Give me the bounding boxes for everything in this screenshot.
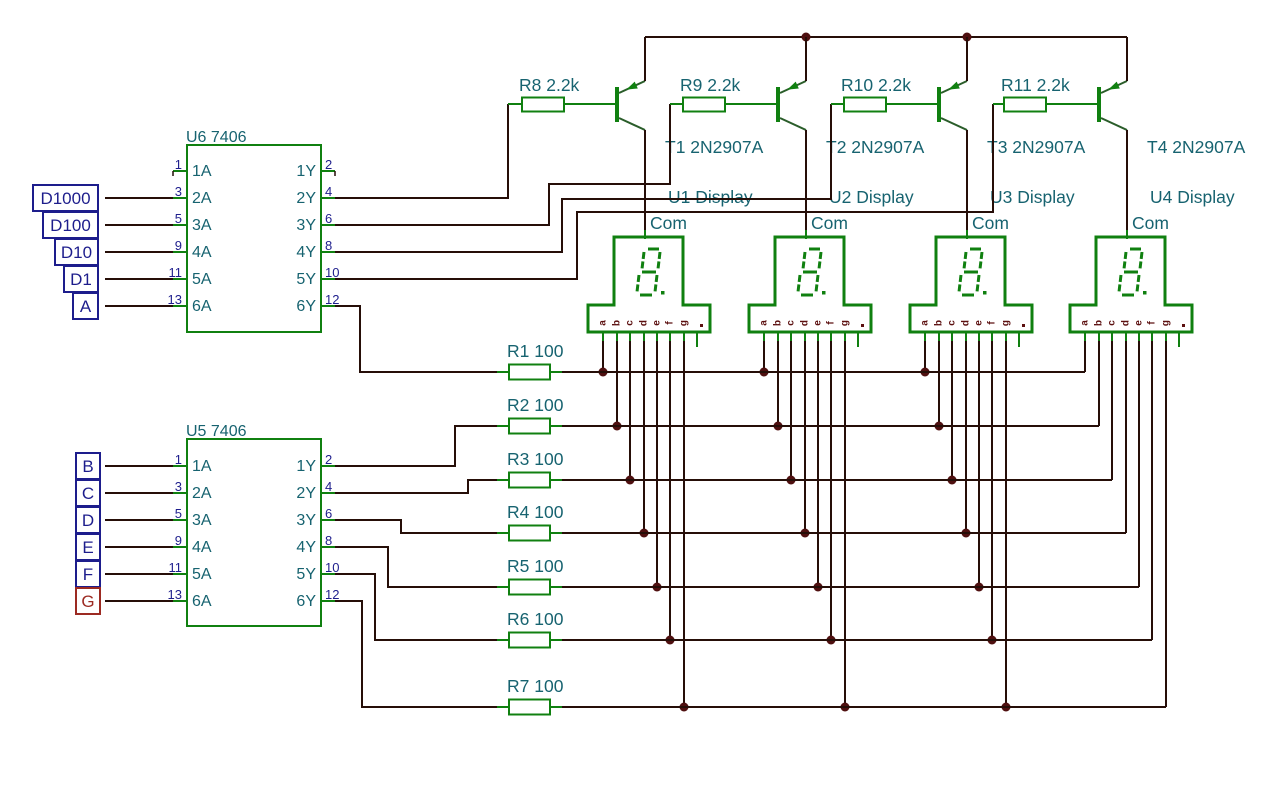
display U4 digit 8. (1119, 249, 1147, 295)
display U4 segment drop wires (1085, 341, 1166, 707)
svg-text:D10: D10 (61, 243, 92, 262)
terminal label E (76, 534, 100, 560)
resistor R7 100 (497, 700, 562, 715)
wire U6 5Y to R11 (335, 104, 993, 279)
resistor R6 100 (497, 633, 562, 648)
svg-text:3Y: 3Y (296, 512, 316, 529)
wire T2 collector to display Com (805, 130, 807, 232)
svg-text:12: 12 (325, 587, 339, 602)
svg-text:12: 12 (325, 292, 339, 307)
wire segment row R7 (562, 706, 1166, 708)
resistor R8 2.2k (522, 98, 615, 112)
svg-text:c: c (947, 320, 958, 326)
svg-text:13: 13 (168, 587, 182, 602)
wire segment row R3 (562, 479, 1112, 481)
svg-text:1A: 1A (192, 458, 212, 475)
transistor T1 2N2907A (617, 81, 645, 130)
wire T1 emitter to rail (644, 37, 646, 81)
svg-text:T1 2N2907A: T1 2N2907A (665, 137, 764, 157)
svg-text:5: 5 (175, 211, 182, 226)
svg-text:b: b (1094, 320, 1105, 326)
svg-text:R6 100: R6 100 (507, 609, 564, 629)
svg-text:Com: Com (972, 213, 1009, 233)
svg-text:e: e (974, 320, 985, 326)
svg-text:3A: 3A (192, 512, 212, 529)
display U1 pin letters (598, 320, 703, 327)
terminal label D1000 (33, 185, 98, 211)
svg-text:D: D (82, 511, 94, 530)
svg-text:2: 2 (325, 157, 332, 172)
transistor T3 2N2907A (939, 81, 967, 130)
svg-text:g: g (1001, 320, 1012, 326)
display U1 outline (588, 237, 710, 332)
wire feed to R3 (335, 480, 497, 493)
terminal label D (76, 507, 100, 533)
display U2 junction dots (760, 368, 850, 712)
svg-text:b: b (773, 320, 784, 326)
svg-text:2A: 2A (192, 190, 212, 207)
svg-text:d: d (1121, 320, 1132, 326)
svg-text:3A: 3A (192, 217, 212, 234)
display U4 pin letters (1080, 320, 1185, 327)
wire G to U5 6A (105, 600, 173, 602)
wire B to U5 1A (105, 465, 173, 467)
wire feed to R6 (335, 574, 497, 640)
svg-text:4Y: 4Y (296, 244, 316, 261)
wire T4 collector to display Com (1126, 130, 1128, 232)
svg-text:6A: 6A (192, 593, 212, 610)
svg-text:6Y: 6Y (296, 593, 316, 610)
svg-text:R3 100: R3 100 (507, 449, 564, 469)
svg-text:F: F (83, 565, 93, 584)
svg-text:6Y: 6Y (296, 298, 316, 315)
svg-text:T4 2N2907A: T4 2N2907A (1147, 137, 1246, 157)
IC U6 pin stubs (173, 171, 335, 306)
svg-text:R1 100: R1 100 (507, 341, 564, 361)
svg-text:B: B (82, 457, 93, 476)
display U3 pin letters (920, 320, 1025, 327)
IC U5 pin numbers (168, 452, 340, 602)
svg-text:R5 100: R5 100 (507, 556, 564, 576)
svg-text:e: e (1134, 320, 1145, 326)
resistor R4 100 (497, 526, 562, 541)
terminal label B (76, 453, 100, 479)
svg-text:4Y: 4Y (296, 539, 316, 556)
svg-text:U3 Display: U3 Display (990, 187, 1075, 207)
svg-text:Com: Com (1132, 213, 1169, 233)
svg-text:T3 2N2907A: T3 2N2907A (987, 137, 1086, 157)
svg-text:10: 10 (325, 265, 339, 280)
display U3 pin stubs (925, 332, 1019, 347)
wire feed to R5 (335, 547, 497, 587)
svg-text:R2 100: R2 100 (507, 395, 564, 415)
wire T1 collector to display Com (644, 130, 646, 232)
transistor T4 2N2907A (1099, 81, 1127, 130)
resistor R11 2.2k (1004, 98, 1097, 112)
display U3 common stub (966, 230, 968, 239)
svg-text:5A: 5A (192, 566, 212, 583)
svg-text:6A: 6A (192, 298, 212, 315)
wire D to U5 3A (105, 519, 173, 521)
IC U5 pin stubs (173, 466, 335, 601)
wire segment row R1 (562, 371, 1085, 373)
svg-text:D100: D100 (50, 216, 91, 235)
svg-text:4: 4 (325, 479, 332, 494)
svg-text:c: c (786, 320, 797, 326)
svg-text:C: C (82, 484, 94, 503)
svg-text:R9 2.2k: R9 2.2k (680, 75, 741, 95)
display U2 segment drop wires (764, 341, 845, 707)
svg-text:G: G (81, 592, 94, 611)
resistor R9 2.2k (683, 98, 776, 112)
svg-text:1Y: 1Y (296, 163, 316, 180)
terminal label D100 (43, 212, 98, 238)
svg-text:R8 2.2k: R8 2.2k (519, 75, 580, 95)
display U1 segment drop wires (603, 341, 684, 707)
IC U6 pin names (192, 163, 316, 315)
svg-text:c: c (1107, 320, 1118, 326)
svg-text:U5 7406: U5 7406 (186, 423, 247, 440)
svg-text:2Y: 2Y (296, 485, 316, 502)
svg-text:R11 2.2k: R11 2.2k (1001, 75, 1070, 95)
wire stub R11 left (993, 103, 1004, 105)
svg-text:3Y: 3Y (296, 217, 316, 234)
svg-text:d: d (800, 320, 811, 326)
display U2 pin letters (759, 320, 864, 327)
svg-text:Com: Com (811, 213, 848, 233)
IC U6 7406 body (187, 145, 321, 332)
svg-text:g: g (679, 320, 690, 326)
svg-text:11: 11 (169, 265, 183, 280)
svg-text:2: 2 (325, 452, 332, 467)
svg-text:d: d (961, 320, 972, 326)
resistor R10 2.2k (844, 98, 937, 112)
svg-text:a: a (598, 320, 609, 326)
svg-text:g: g (840, 320, 851, 326)
wire feed to R7 (335, 601, 497, 707)
wire stub R8 left (508, 103, 522, 105)
wire feed to R4 (335, 520, 497, 533)
display U1 digit 8. (637, 249, 665, 295)
svg-text:5A: 5A (192, 271, 212, 288)
wire E to U5 4A (105, 546, 173, 548)
wire feed to R1 (335, 306, 497, 372)
svg-text:1Y: 1Y (296, 458, 316, 475)
svg-text:e: e (813, 320, 824, 326)
display U2 common stub (805, 230, 807, 239)
svg-text:2A: 2A (192, 485, 212, 502)
unconnected tick U6 pin 2 (334, 171, 336, 176)
wire T3 emitter to rail (966, 37, 968, 81)
svg-text:A: A (80, 297, 92, 316)
wire U6 2Y to R8 (335, 104, 508, 198)
svg-text:5Y: 5Y (296, 271, 316, 288)
svg-text:1: 1 (175, 452, 182, 467)
resistor R2 100 (497, 419, 562, 434)
display U3 outline (910, 237, 1032, 332)
svg-text:b: b (612, 320, 623, 326)
svg-text:8: 8 (325, 533, 332, 548)
transistor T2 2N2907A (778, 81, 806, 130)
display U1 junction dots (599, 368, 689, 712)
display U2 pin stubs (764, 332, 858, 347)
wire A to U6 6A (105, 305, 173, 307)
display U1 common stub (644, 230, 646, 239)
wire D1 to U6 5A (105, 278, 173, 280)
svg-text:e: e (652, 320, 663, 326)
display U3 segment drop wires (925, 341, 1006, 707)
svg-text:8: 8 (325, 238, 332, 253)
svg-text:U4 Display: U4 Display (1150, 187, 1235, 207)
display U2 outline (749, 237, 871, 332)
terminal label A (73, 293, 98, 319)
svg-text:9: 9 (175, 533, 182, 548)
resistor R5 100 (497, 580, 562, 595)
svg-text:R10 2.2k: R10 2.2k (841, 75, 911, 95)
display U4 outline (1070, 237, 1192, 332)
display U3 junction dots (921, 368, 1011, 712)
resistor R3 100 (497, 473, 562, 488)
svg-text:a: a (1080, 320, 1091, 326)
wire segment row R6 (562, 639, 1152, 641)
junction dot rail at T3 emitter (963, 33, 972, 42)
svg-text:5: 5 (175, 506, 182, 521)
terminal label G (76, 588, 100, 614)
display U3 digit 8. (959, 249, 987, 295)
svg-text:b: b (934, 320, 945, 326)
svg-text:c: c (625, 320, 636, 326)
svg-text:D1: D1 (70, 270, 92, 289)
wire segment row R4 (562, 532, 1126, 534)
svg-text:6: 6 (325, 211, 332, 226)
wire U6 4Y to R10 (335, 104, 831, 252)
svg-text:3: 3 (175, 479, 182, 494)
IC U5 7406 body (187, 439, 321, 626)
svg-text:4A: 4A (192, 244, 212, 261)
wire feed to R2 (335, 426, 497, 466)
svg-text:9: 9 (175, 238, 182, 253)
wire F to U5 5A (105, 573, 173, 575)
junction dot rail at T2 emitter (802, 33, 811, 42)
svg-text:d: d (639, 320, 650, 326)
svg-text:D1000: D1000 (40, 189, 90, 208)
wire D1000 to U6 2A (105, 197, 173, 199)
wire T3 collector to display Com (966, 130, 968, 232)
wire U6 3Y to R9 (335, 104, 670, 225)
svg-text:13: 13 (168, 292, 182, 307)
svg-text:E: E (82, 538, 93, 557)
wire D10 to U6 4A (105, 251, 173, 253)
svg-text:1A: 1A (192, 163, 212, 180)
wire stub R10 left (831, 103, 844, 105)
svg-text:11: 11 (169, 560, 183, 575)
terminal label F (76, 561, 100, 587)
wire segment row R2 (562, 425, 1099, 427)
wire T2 emitter to rail (805, 37, 807, 81)
svg-text:a: a (759, 320, 770, 326)
svg-text:T2 2N2907A: T2 2N2907A (826, 137, 925, 157)
IC U6 pin numbers (168, 157, 340, 307)
svg-text:2Y: 2Y (296, 190, 316, 207)
wire T4 emitter to rail (1126, 37, 1128, 81)
terminal label D10 (55, 239, 98, 265)
unconnected tick U6 pin 1 (172, 171, 174, 176)
svg-text:10: 10 (325, 560, 339, 575)
wire D100 to U6 3A (105, 224, 173, 226)
terminal label D1 (64, 266, 98, 292)
wire stub R9 left (670, 103, 683, 105)
svg-text:R7 100: R7 100 (507, 676, 564, 696)
svg-text:4: 4 (325, 184, 332, 199)
wire C to U5 2A (105, 492, 173, 494)
svg-text:3: 3 (175, 184, 182, 199)
svg-text:a: a (920, 320, 931, 326)
IC U5 pin names (192, 458, 316, 610)
svg-text:5Y: 5Y (296, 566, 316, 583)
wire V+ top rail (645, 36, 1127, 38)
display U1 pin stubs (603, 332, 697, 347)
svg-text:U1 Display: U1 Display (668, 187, 753, 207)
svg-text:R4 100: R4 100 (507, 502, 564, 522)
svg-text:4A: 4A (192, 539, 212, 556)
display U2 digit 8. (798, 249, 826, 295)
display U4 common stub (1126, 230, 1128, 239)
resistor R1 100 (497, 365, 562, 380)
svg-text:U6 7406: U6 7406 (186, 129, 247, 146)
display U4 pin stubs (1085, 332, 1179, 347)
wire segment row R5 (562, 586, 1139, 588)
terminal label C (76, 480, 100, 506)
svg-text:g: g (1161, 320, 1172, 326)
svg-text:Com: Com (650, 213, 687, 233)
svg-text:1: 1 (175, 157, 182, 172)
svg-text:6: 6 (325, 506, 332, 521)
svg-text:U2 Display: U2 Display (829, 187, 914, 207)
